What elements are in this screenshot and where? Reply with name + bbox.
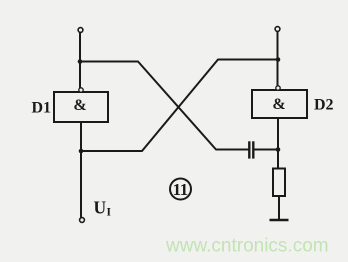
svg-text:D1: D1 xyxy=(32,100,52,117)
svg-text:D2: D2 xyxy=(314,97,334,114)
svg-text:I: I xyxy=(107,207,112,219)
svg-text:&: & xyxy=(73,97,86,114)
svg-text:www.cntronics.com: www.cntronics.com xyxy=(165,236,329,257)
svg-text:11: 11 xyxy=(173,180,188,199)
svg-text:&: & xyxy=(272,96,285,113)
svg-text:U: U xyxy=(94,198,107,218)
